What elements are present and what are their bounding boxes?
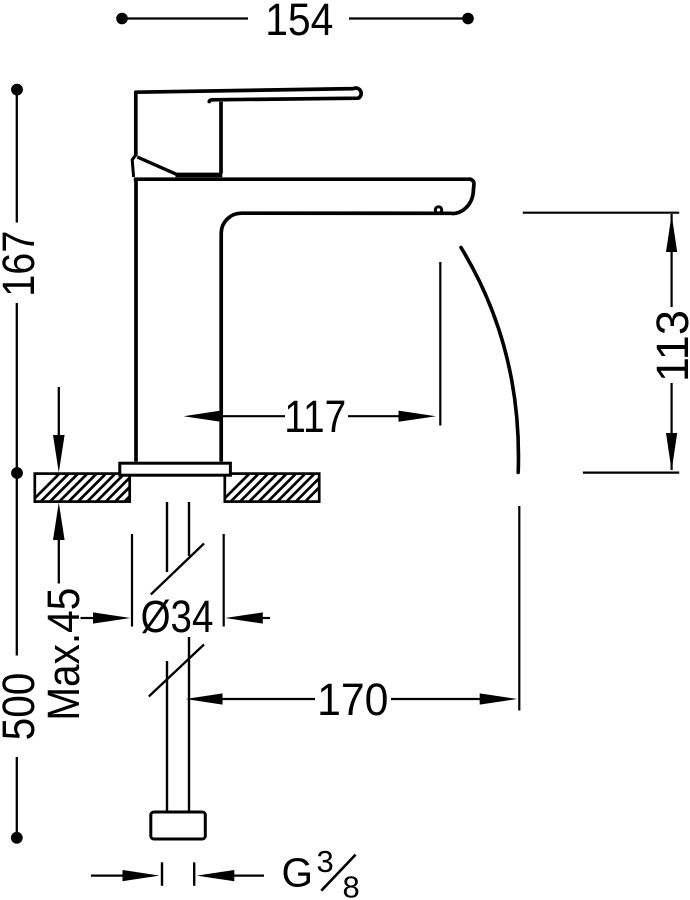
dim G3/8 right shaft [234, 874, 264, 876]
body left edge [134, 179, 138, 462]
svg-text:G: G [282, 850, 314, 896]
svg-text:170: 170 [317, 675, 388, 725]
dim O34 left extension line [131, 534, 133, 627]
dim 170 right extension line [518, 506, 520, 711]
dim 154 line right segment [349, 17, 466, 19]
dim 167 top dot [11, 84, 23, 96]
dim 113 down arrowhead [666, 433, 677, 471]
svg-text:8: 8 [343, 870, 360, 900]
svg-text:154: 154 [265, 0, 333, 45]
dim 170 right arrowhead [480, 693, 518, 704]
cartridge collar bar [176, 173, 223, 178]
svg-text:113: 113 [647, 310, 690, 382]
shank right line upper [188, 502, 190, 556]
dim 154 left dot [116, 13, 128, 25]
handle bottom diagonal edge [137, 157, 177, 175]
thread label fraction slash [321, 855, 355, 891]
aerator bump [435, 207, 441, 213]
handle back vertical edge [219, 102, 223, 174]
svg-text:117: 117 [284, 391, 346, 442]
dim G3/8 left arrowhead [123, 870, 160, 881]
dim Max.45 lower line [58, 540, 60, 584]
dim 117 line segments [220, 415, 285, 417]
shank left line lower [166, 661, 168, 812]
dim Max.45 lower arrowhead [53, 502, 65, 540]
break slash lower [149, 645, 204, 697]
dim 170 line segments [222, 698, 315, 700]
handle left skirt [132, 155, 135, 177]
countertop left block [31, 474, 152, 502]
dim 113 line segments [670, 214, 672, 307]
svg-text:500: 500 [0, 673, 45, 741]
dim 154 right dot [462, 13, 474, 25]
base flange [120, 463, 231, 475]
dim G3/8 right arrowhead [197, 870, 235, 881]
dim 167 line [16, 92, 18, 223]
spout underside line [241, 211, 452, 215]
supply nut [151, 812, 206, 839]
svg-text:Ø34: Ø34 [141, 591, 214, 642]
dim 117 left arrowhead [184, 411, 221, 422]
dim 170 left arrowhead [186, 693, 223, 704]
dim 113 top extension line [523, 212, 679, 214]
dim O34 right extension line [223, 534, 225, 627]
shank right line lower [188, 637, 190, 812]
dim 500 line [16, 476, 18, 656]
countertop right block [221, 474, 333, 502]
water stream curve [461, 248, 518, 473]
dim 113 up arrowhead [666, 215, 677, 253]
dim G3/8 left tick [161, 862, 163, 886]
dim O34 right arrow [225, 612, 263, 623]
body top face and spout tip outline [134, 179, 474, 213]
dim G3/8 right tick [193, 862, 195, 886]
dim 113 bottom extension line [583, 472, 679, 474]
svg-text:167: 167 [0, 231, 45, 297]
dim 117 right extension line [439, 262, 441, 426]
svg-text:Max.45: Max.45 [39, 588, 90, 721]
dim G3/8 left shaft [91, 874, 123, 876]
handle lever outline [136, 88, 361, 155]
spout inner corner and body right edge [221, 213, 241, 461]
dim 117 right arrowhead [399, 411, 437, 422]
break slash upper [151, 544, 204, 595]
shared dot 167/500 [11, 467, 23, 479]
svg-text:3: 3 [317, 844, 334, 879]
shank left line upper [166, 502, 168, 572]
dim 154 line left segment [124, 17, 248, 19]
dim 500 bottom dot [11, 832, 23, 844]
dim Max.45 upper line [58, 387, 60, 437]
dim Max.45 upper arrowhead [53, 435, 65, 473]
dim O34 left arrow [81, 617, 96, 619]
